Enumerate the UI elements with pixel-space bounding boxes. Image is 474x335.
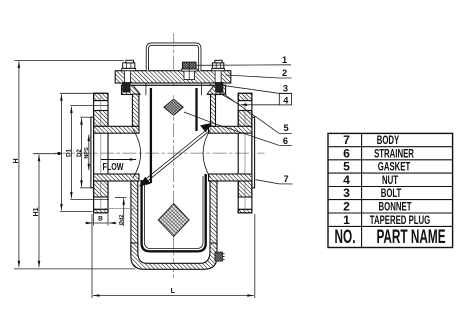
svg-text:4: 4 — [343, 173, 350, 187]
svg-text:TAPERED PLUG: TAPERED PLUG — [370, 214, 431, 227]
svg-text:2: 2 — [282, 68, 287, 78]
svg-text:PART NAME: PART NAME — [376, 227, 445, 247]
svg-text:NPS: NPS — [84, 147, 90, 159]
svg-text:D2: D2 — [77, 149, 83, 157]
svg-text:7: 7 — [343, 133, 350, 147]
svg-text:6: 6 — [283, 136, 288, 146]
svg-text:FLOW: FLOW — [103, 160, 124, 172]
svg-text:3: 3 — [343, 186, 350, 200]
svg-text:BONNET: BONNET — [379, 201, 413, 214]
svg-text:7: 7 — [284, 174, 289, 184]
svg-text:D1: D1 — [67, 149, 73, 157]
svg-text:1: 1 — [282, 55, 287, 65]
svg-text:Ød2: Ød2 — [119, 215, 125, 226]
svg-text:3: 3 — [283, 84, 288, 94]
svg-text:GASKET: GASKET — [378, 161, 411, 174]
svg-text:NUT: NUT — [382, 175, 399, 188]
svg-text:H: H — [13, 158, 20, 163]
svg-text:H1: H1 — [33, 207, 40, 216]
svg-text:BOLT: BOLT — [381, 188, 402, 201]
svg-text:STRAINER: STRAINER — [374, 148, 414, 161]
svg-text:5: 5 — [343, 160, 350, 174]
svg-text:B: B — [98, 216, 103, 223]
svg-text:6: 6 — [343, 146, 350, 160]
svg-text:2: 2 — [343, 200, 350, 214]
svg-text:L: L — [171, 288, 176, 295]
svg-text:NO.: NO. — [335, 227, 356, 247]
svg-text:5: 5 — [283, 123, 288, 133]
svg-text:4: 4 — [283, 95, 289, 105]
svg-text:1: 1 — [343, 213, 350, 227]
svg-text:BODY: BODY — [377, 135, 400, 148]
